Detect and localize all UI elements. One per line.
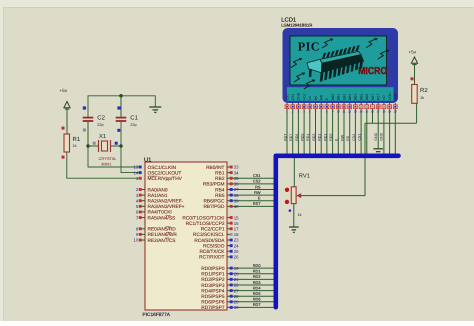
svg-text:1k: 1k [420,96,424,100]
svg-text:RC2/CCP1: RC2/CCP1 [201,227,225,233]
svg-text:CS1: CS1 [285,94,289,101]
svg-text:4MHz: 4MHz [101,161,111,166]
svg-text:22p: 22p [130,123,136,127]
svg-text:RB7/PGD: RB7/PGD [203,204,225,210]
svg-text:RD4: RD4 [306,134,310,141]
svg-text:DB5: DB5 [359,94,363,101]
svg-text:18: 18 [382,110,386,114]
svg-text:10: 10 [337,110,341,114]
svg-text:RD0: RD0 [329,134,333,141]
svg-text:CS1: CS1 [358,134,362,141]
svg-text:19: 19 [388,110,392,114]
svg-text:RS: RS [346,135,350,141]
svg-text:25: 25 [234,249,239,254]
svg-text:RD1: RD1 [323,134,327,141]
svg-text:RW: RW [254,190,261,195]
svg-text:22p: 22p [97,123,103,127]
svg-text:LED-: LED- [394,93,398,101]
svg-text:40: 40 [234,204,239,209]
svg-text:VO: VO [382,95,386,100]
svg-text:RD4/PSP4: RD4/PSP4 [201,288,225,294]
svg-text:RA2/AN2/VREF-: RA2/AN2/VREF- [148,199,184,205]
svg-text:26: 26 [234,255,239,260]
svg-text:RV1: RV1 [299,173,310,179]
svg-text:38: 38 [234,193,239,198]
svg-text:19: 19 [234,266,239,271]
svg-text:E: E [258,196,261,201]
svg-text:CS2: CS2 [253,179,261,184]
svg-text:RD7/PSP7: RD7/PSP7 [201,305,225,311]
svg-text:23: 23 [234,238,239,243]
svg-text:RST: RST [377,94,381,101]
svg-text:RB0/INT: RB0/INT [206,165,224,171]
svg-text:RD0/PSP0: RD0/PSP0 [201,266,225,272]
svg-text:VCC: VCC [302,93,306,101]
svg-text:20: 20 [234,271,239,276]
svg-text:PIC16F877A: PIC16F877A [143,312,171,318]
svg-text:RC1/T1OSI/CCP2: RC1/T1OSI/CCP2 [186,221,225,227]
svg-text:RB2: RB2 [215,176,225,182]
svg-text:GND: GND [374,132,378,140]
svg-text:RW: RW [320,94,324,100]
svg-text:30: 30 [234,305,239,310]
svg-text:RD2/PSP2: RD2/PSP2 [201,277,225,283]
svg-text:RD2: RD2 [253,274,261,279]
svg-text:20: 20 [394,110,398,114]
svg-text:RS: RS [314,95,318,100]
svg-text:18: 18 [234,232,239,237]
svg-text:DB0: DB0 [331,94,335,101]
svg-text:RE1/AN6/WR: RE1/AN6/WR [148,232,178,238]
svg-text:RE2/AN7/CS: RE2/AN7/CS [148,238,176,244]
svg-text:RD7: RD7 [253,302,261,307]
svg-text:CS2: CS2 [352,134,356,141]
svg-text:RD1/PSP1: RD1/PSP1 [201,272,225,278]
svg-text:DB1: DB1 [337,94,341,101]
svg-text:12: 12 [348,110,352,114]
svg-text:C2: C2 [97,115,105,122]
svg-text:34: 34 [234,170,239,175]
svg-text:RD6: RD6 [295,134,299,141]
svg-text:13: 13 [134,165,139,170]
svg-text:36: 36 [234,182,239,187]
svg-text:RC0/T1OSO/T1CKI: RC0/T1OSO/T1CKI [182,215,224,221]
svg-text:CS1: CS1 [253,173,261,178]
svg-text:R2: R2 [420,87,428,94]
svg-text:RB4: RB4 [215,187,225,193]
svg-text:C1: C1 [130,115,138,122]
svg-text:RB3/PGM: RB3/PGM [203,182,225,188]
svg-text:RA3/AN3/VREF+: RA3/AN3/VREF+ [148,204,185,210]
svg-text:DB6: DB6 [365,94,369,101]
svg-text:LED+: LED+ [388,92,392,100]
svg-text:RE0/AN5/RD: RE0/AN5/RD [148,227,177,233]
svg-text:RD5/PSP5: RD5/PSP5 [201,294,225,300]
svg-text:RD0: RD0 [253,263,262,268]
svg-text:RA4/T0CKI: RA4/T0CKI [148,210,172,216]
svg-text:RC4/SDI/SDA: RC4/SDI/SDA [194,238,225,244]
svg-text:39: 39 [234,198,239,203]
svg-text:17: 17 [377,110,381,114]
svg-text:33: 33 [234,165,239,170]
svg-text:RST: RST [253,201,261,206]
svg-text:21: 21 [234,277,239,282]
svg-text:RD6: RD6 [253,297,261,302]
svg-text:RS: RS [255,184,261,189]
svg-text:OSC2/CLKOUT: OSC2/CLKOUT [148,170,182,176]
svg-text:CS2: CS2 [291,94,295,101]
svg-text:+5v: +5v [60,88,68,93]
svg-text:RD4: RD4 [253,285,262,290]
svg-text:X1: X1 [99,134,106,140]
svg-text:1k: 1k [298,213,302,217]
svg-text:LGM12641BS1R: LGM12641BS1R [281,23,312,28]
svg-text:16: 16 [234,221,239,226]
svg-text:PIC: PIC [298,40,320,54]
svg-text:CRYSTAL: CRYSTAL [99,156,118,161]
svg-text:RD2: RD2 [318,134,322,141]
svg-text:DB7: DB7 [371,94,375,101]
svg-text:MICRO: MICRO [358,66,387,77]
svg-text:RB1: RB1 [215,170,225,176]
svg-text:RD3: RD3 [312,134,316,141]
svg-text:RD5: RD5 [253,291,261,296]
svg-text:R1: R1 [73,136,81,143]
svg-text:11: 11 [343,110,346,114]
svg-text:RC7/RX/DT: RC7/RX/DT [199,255,224,261]
svg-text:14: 14 [134,170,139,175]
svg-text:14: 14 [360,110,364,114]
svg-text:+5v: +5v [409,50,417,55]
svg-text:RW: RW [340,134,344,141]
svg-text:RD3/PSP3: RD3/PSP3 [201,283,225,289]
svg-text:17: 17 [234,226,239,231]
svg-text:RD1: RD1 [253,269,261,274]
svg-text:37: 37 [234,187,239,192]
svg-text:DB4: DB4 [354,94,358,101]
svg-text:U1: U1 [144,158,151,164]
svg-text:RC6/TX/CK: RC6/TX/CK [199,249,225,255]
svg-text:24: 24 [234,243,239,248]
svg-text:RST: RST [283,133,287,141]
svg-text:RA5/AN4/SS: RA5/AN4/SS [148,215,176,221]
svg-text:RA0/AN0: RA0/AN0 [148,187,168,193]
svg-text:GND: GND [297,92,301,100]
svg-text:V0: V0 [308,96,312,100]
svg-text:OSC1/CLKIN: OSC1/CLKIN [148,165,177,171]
svg-text:16: 16 [371,110,375,114]
svg-text:35: 35 [234,176,239,181]
svg-text:RC5/SDO: RC5/SDO [203,243,225,249]
svg-text:13: 13 [354,110,358,114]
svg-text:GND: GND [380,132,384,140]
svg-text:DB3: DB3 [348,94,352,101]
svg-text:1k: 1k [73,144,77,148]
svg-text:DB2: DB2 [342,94,346,101]
svg-text:28: 28 [234,294,239,299]
svg-text:10: 10 [134,238,139,243]
svg-text:27: 27 [234,288,239,293]
svg-text:RD5: RD5 [301,134,305,141]
svg-text:RB6/PGC: RB6/PGC [203,199,225,205]
svg-text:RD3: RD3 [253,280,261,285]
svg-text:15: 15 [365,110,369,114]
svg-text:RB5: RB5 [215,193,225,199]
svg-text:RD7: RD7 [289,134,293,141]
svg-text:MCLR/Vpp/THV: MCLR/Vpp/THV [148,176,183,182]
svg-text:22: 22 [234,283,239,288]
svg-text:29: 29 [234,300,239,305]
svg-text:RA1/AN1: RA1/AN1 [148,193,168,199]
svg-text:RD6/PSP6: RD6/PSP6 [201,300,225,306]
svg-text:15: 15 [234,215,239,220]
svg-text:RC3/SCK/SCL: RC3/SCK/SCL [193,232,225,238]
